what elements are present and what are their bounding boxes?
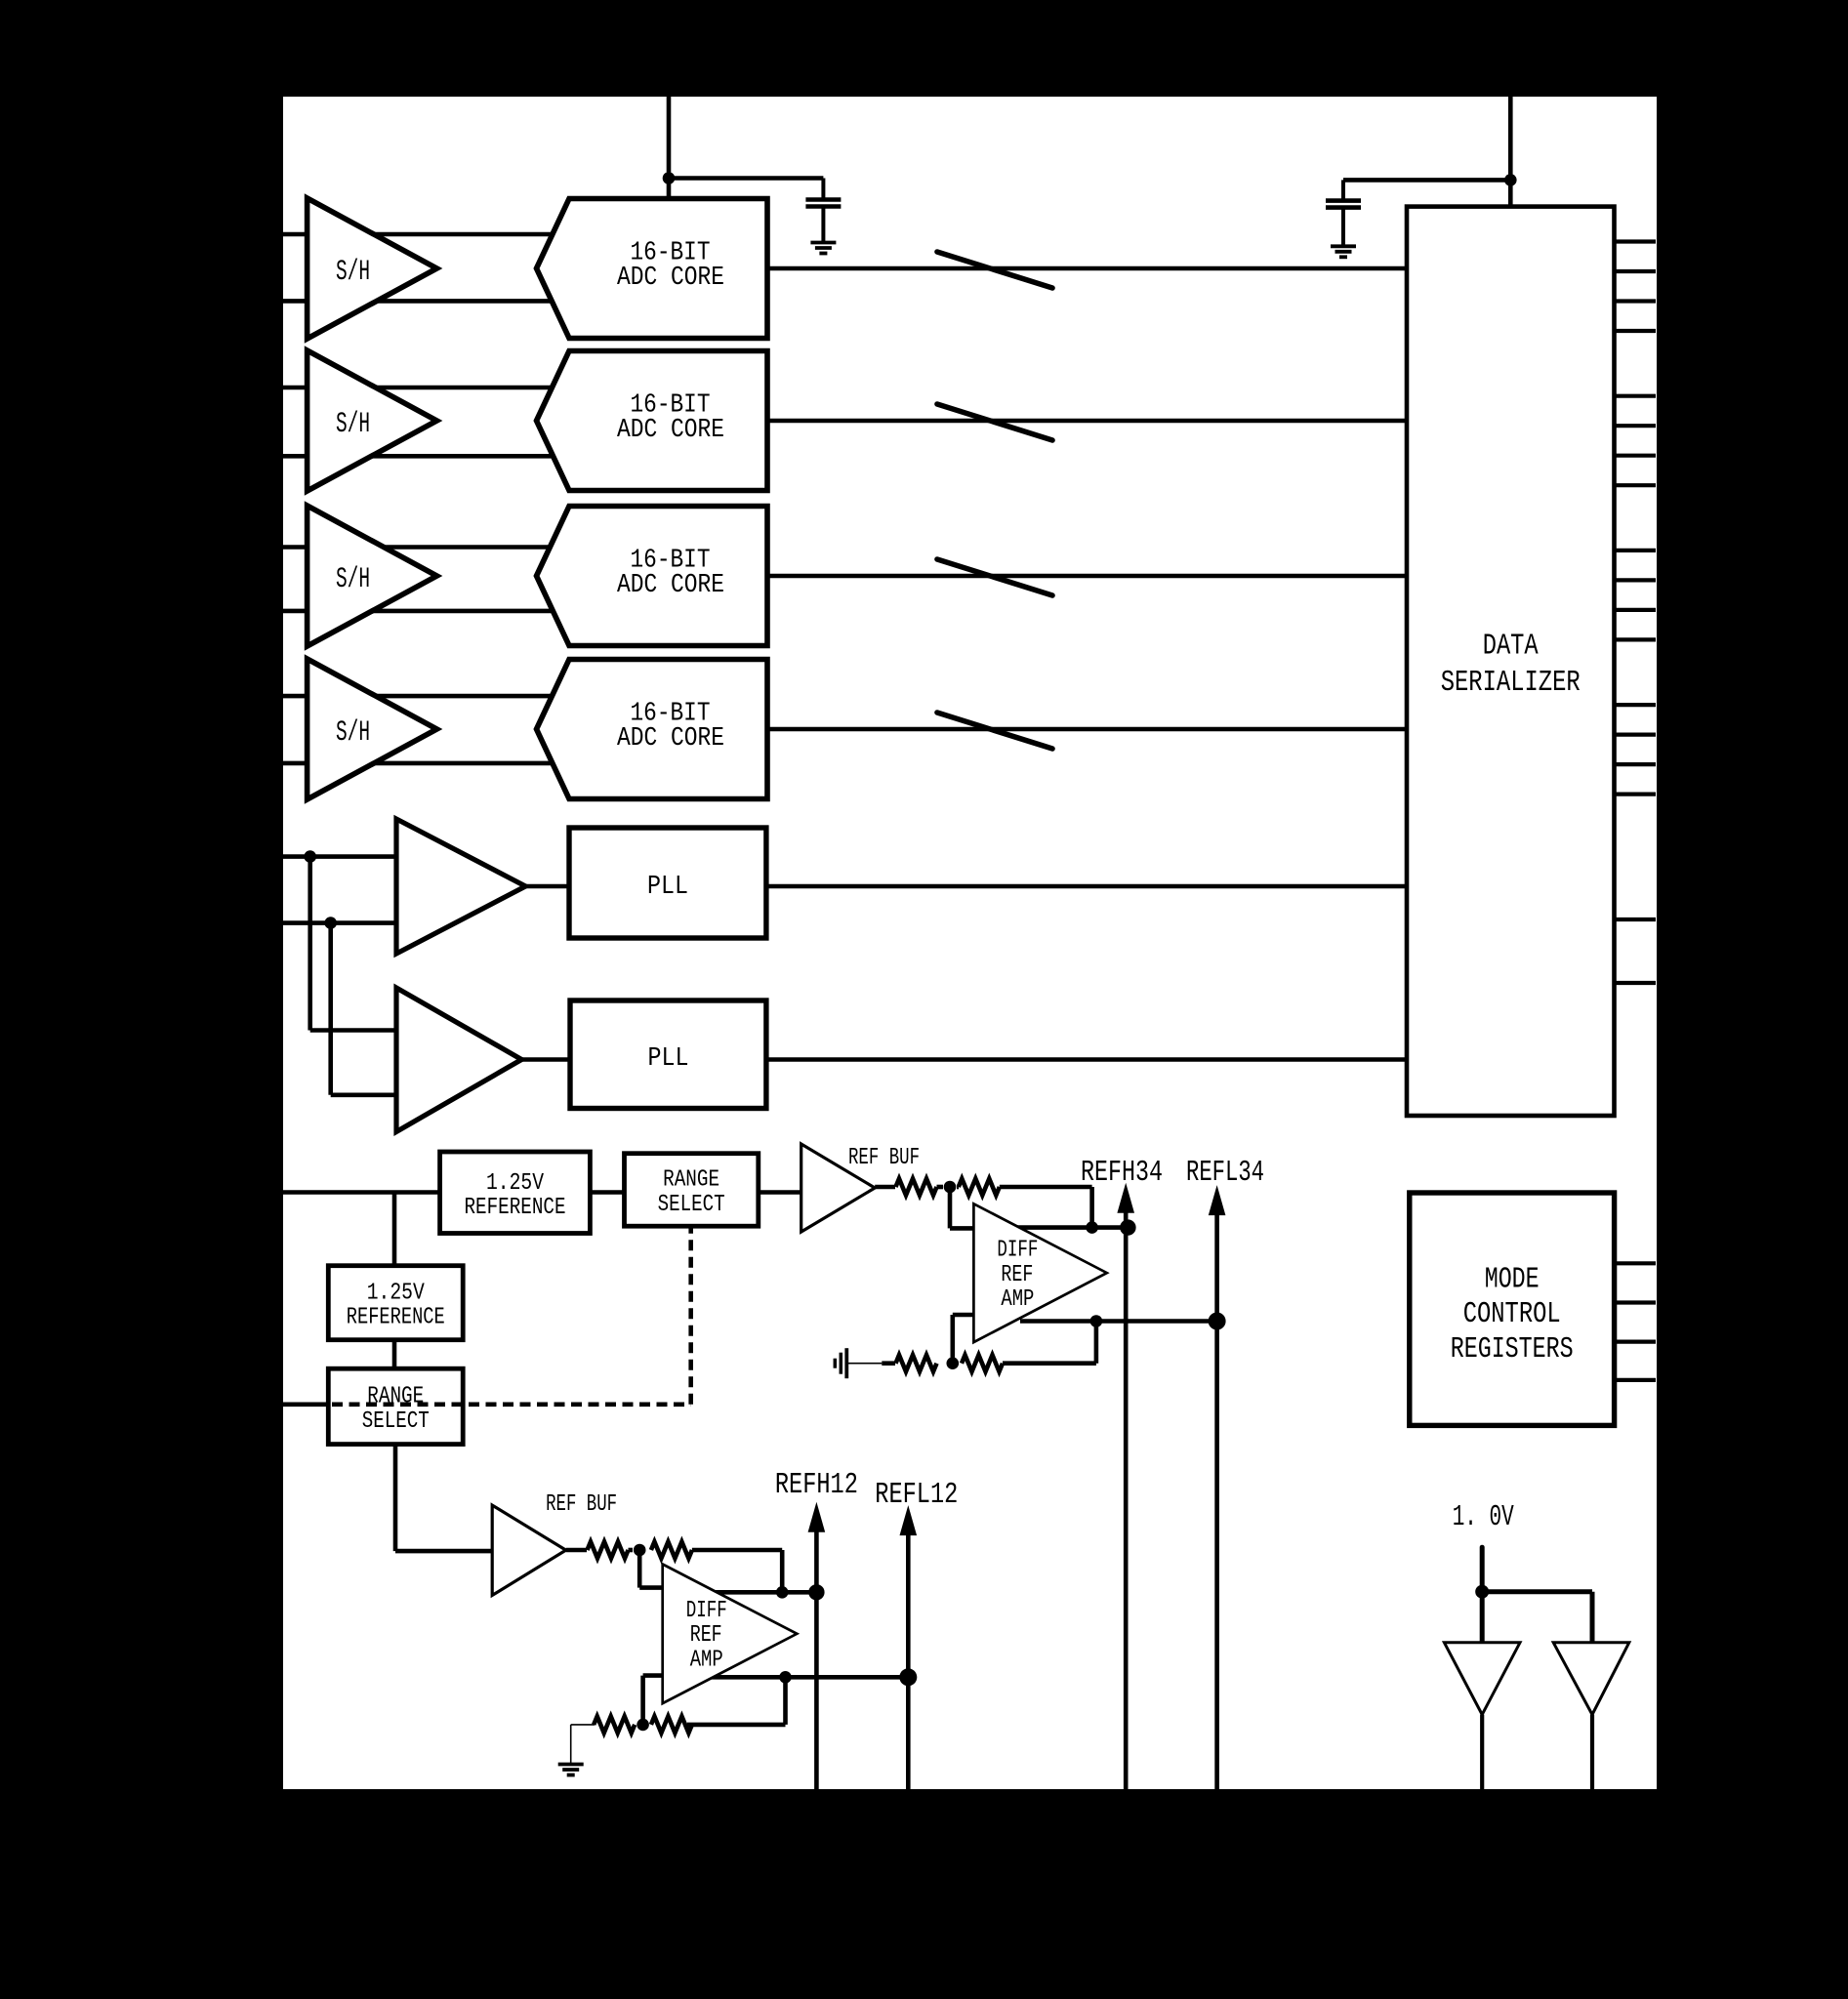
- svg-text:ADC CORE: ADC CORE: [617, 263, 724, 292]
- svg-text:PLL: PLL: [648, 1043, 689, 1073]
- svg-text:REFL34: REFL34: [1186, 1156, 1264, 1190]
- svg-text:REFERENCE: REFERENCE: [347, 1305, 445, 1331]
- svg-text:REFL12: REFL12: [875, 1478, 958, 1512]
- svg-text:1.25V: 1.25V: [486, 1170, 544, 1197]
- svg-text:REF BUF: REF BUF: [546, 1491, 617, 1518]
- svg-text:DIFF: DIFF: [686, 1598, 727, 1624]
- svg-text:ADC CORE: ADC CORE: [617, 570, 724, 599]
- svg-text:DATA: DATA: [1483, 630, 1539, 664]
- svg-text:SERIALIZER: SERIALIZER: [1441, 666, 1581, 700]
- svg-text:1.25V: 1.25V: [367, 1280, 425, 1306]
- svg-text:RANGE: RANGE: [663, 1167, 719, 1194]
- svg-text:REFH12: REFH12: [775, 1468, 858, 1502]
- svg-text:1. 0V: 1. 0V: [1453, 1500, 1514, 1534]
- svg-text:S/H: S/H: [336, 562, 370, 595]
- svg-text:DIFF: DIFF: [997, 1238, 1038, 1264]
- svg-text:AMP: AMP: [690, 1647, 723, 1673]
- svg-text:AMP: AMP: [1001, 1286, 1034, 1313]
- svg-text:CONTROL: CONTROL: [1463, 1297, 1561, 1331]
- svg-text:S/H: S/H: [336, 715, 370, 749]
- svg-text:PLL: PLL: [647, 872, 688, 901]
- svg-text:REF: REF: [1001, 1262, 1033, 1288]
- svg-text:S/H: S/H: [336, 407, 370, 440]
- svg-text:ADC CORE: ADC CORE: [617, 723, 724, 753]
- svg-text:SELECT: SELECT: [362, 1408, 430, 1435]
- svg-text:S/H: S/H: [336, 255, 370, 288]
- svg-text:REF BUF: REF BUF: [848, 1145, 920, 1171]
- svg-text:REFH34: REFH34: [1081, 1156, 1163, 1190]
- svg-text:MODE: MODE: [1485, 1262, 1540, 1296]
- svg-text:SELECT: SELECT: [658, 1192, 725, 1218]
- svg-text:REGISTERS: REGISTERS: [1451, 1332, 1574, 1367]
- svg-text:ADC CORE: ADC CORE: [617, 415, 724, 444]
- svg-text:REFERENCE: REFERENCE: [465, 1195, 566, 1221]
- svg-text:REF: REF: [690, 1622, 722, 1649]
